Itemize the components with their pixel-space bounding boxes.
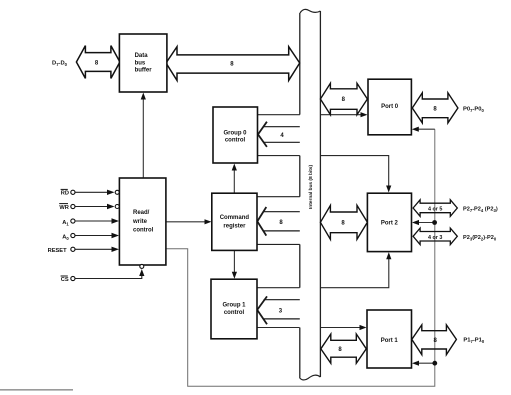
block Command register bbox=[212, 193, 257, 250]
svg-text:P07-P00: P07-P00 bbox=[463, 107, 484, 113]
svg-text:4 or 3: 4 or 3 bbox=[428, 235, 442, 241]
block Read/write control bbox=[119, 178, 165, 265]
arrow Port1 to P17-P10 (8, double) bbox=[412, 325, 457, 355]
block Port 2 bbox=[367, 193, 411, 251]
channel command register outer lines bbox=[257, 197, 300, 245]
arrow Port2 to P27-P24 (4 or 5, double) bbox=[413, 200, 457, 217]
wire tap to Port1 bbox=[412, 361, 437, 366]
svg-text:WR: WR bbox=[59, 205, 68, 211]
wire Group1 to Port2 bottom (crosses bus) bbox=[257, 257, 389, 288]
arrow bus to Command register (8) bbox=[257, 207, 300, 236]
input RESET bbox=[48, 247, 119, 254]
svg-text:control: control bbox=[224, 310, 245, 316]
arrowhead into Port0 left (from group0) bbox=[361, 112, 368, 117]
arrowhead into Port2 top (from group0) bbox=[386, 186, 391, 193]
svg-text:buffer: buffer bbox=[135, 68, 153, 74]
arrowhead into Port1 left (from group1) bbox=[360, 325, 367, 330]
svg-text:Command: Command bbox=[220, 215, 250, 221]
grey page rule bottom-left bbox=[0, 389, 73, 391]
svg-text:RD: RD bbox=[61, 191, 69, 197]
svg-text:control: control bbox=[225, 138, 246, 144]
wire Group1 to Port1 (crosses bus) bbox=[257, 327, 364, 329]
svg-text:Group 1: Group 1 bbox=[222, 303, 246, 309]
wire read/write to ports routing (right vertical) bbox=[166, 129, 435, 386]
block Port 0 bbox=[368, 79, 411, 135]
svg-text:CS: CS bbox=[61, 277, 69, 283]
block Group 1 control bbox=[211, 279, 257, 339]
svg-text:Group 0: Group 0 bbox=[223, 130, 247, 136]
svg-text:Read/: Read/ bbox=[133, 210, 150, 216]
svg-text:A1: A1 bbox=[62, 220, 69, 226]
wire command register to Group0 control bbox=[232, 164, 237, 194]
svg-text:P23(P22)-P20: P23(P22)-P20 bbox=[463, 235, 497, 241]
input WR bbox=[59, 204, 119, 211]
wire tap to Port2 bbox=[412, 220, 437, 225]
wire read/write to command register bbox=[166, 219, 212, 224]
svg-text:A0: A0 bbox=[62, 234, 69, 240]
arrow bus to Group1 control (3) bbox=[257, 296, 300, 324]
svg-text:Internal bus (8 bits): Internal bus (8 bits) bbox=[308, 165, 314, 209]
svg-text:4 or 5: 4 or 5 bbox=[428, 207, 442, 213]
block Port 1 bbox=[367, 310, 412, 368]
svg-text:P17-P10: P17-P10 bbox=[463, 338, 484, 344]
input RD bbox=[61, 189, 120, 196]
svg-text:RESET: RESET bbox=[48, 248, 67, 254]
svg-text:control: control bbox=[133, 228, 154, 234]
svg-text:Port 2: Port 2 bbox=[381, 220, 399, 226]
svg-text:Port 1: Port 1 bbox=[381, 338, 399, 344]
arrow bus to Group0 control (4) bbox=[258, 122, 300, 147]
wire tap to Port0 bbox=[412, 127, 435, 132]
arrowhead into Port2 bottom (from group1) bbox=[386, 252, 391, 259]
arrow bus to Port2 (8, double) bbox=[320, 205, 367, 239]
wire command register to Group1 control bbox=[232, 250, 237, 278]
svg-text:bus: bus bbox=[135, 60, 146, 66]
input A1 bbox=[62, 218, 119, 226]
svg-text:P27-P24 (P23): P27-P24 (P23) bbox=[463, 207, 498, 213]
arrow bus to Port0 (8, double) bbox=[320, 83, 367, 114]
arrow Data bus buffer to internal bus (8, double) bbox=[166, 47, 300, 81]
input CS bbox=[61, 264, 145, 283]
internal bus band bbox=[300, 9, 321, 380]
arrow bus to Port1 (8, double) bbox=[321, 334, 367, 363]
wire Group0 to Port2 top (crosses bus) bbox=[258, 156, 389, 188]
arrow Port2 to P23-P20 (4 or 3, double) bbox=[413, 228, 457, 245]
svg-text:Port 0: Port 0 bbox=[381, 104, 399, 110]
input A0 bbox=[62, 233, 119, 241]
arrow Port0 to P07-P00 (8, double) bbox=[412, 93, 458, 123]
svg-text:write: write bbox=[132, 219, 148, 225]
svg-text:register: register bbox=[223, 223, 246, 229]
svg-text:D7-D0: D7-D0 bbox=[52, 61, 68, 67]
svg-text:Data: Data bbox=[135, 53, 149, 59]
wire read/write to data bus buffer bbox=[141, 93, 146, 179]
block Group 0 control bbox=[213, 107, 258, 163]
arrow D7-D0 to Data bus buffer (8, double) bbox=[76, 46, 120, 79]
block Data bus buffer bbox=[119, 34, 166, 92]
wire Group0 to Port0 (crosses bus) bbox=[258, 114, 365, 116]
